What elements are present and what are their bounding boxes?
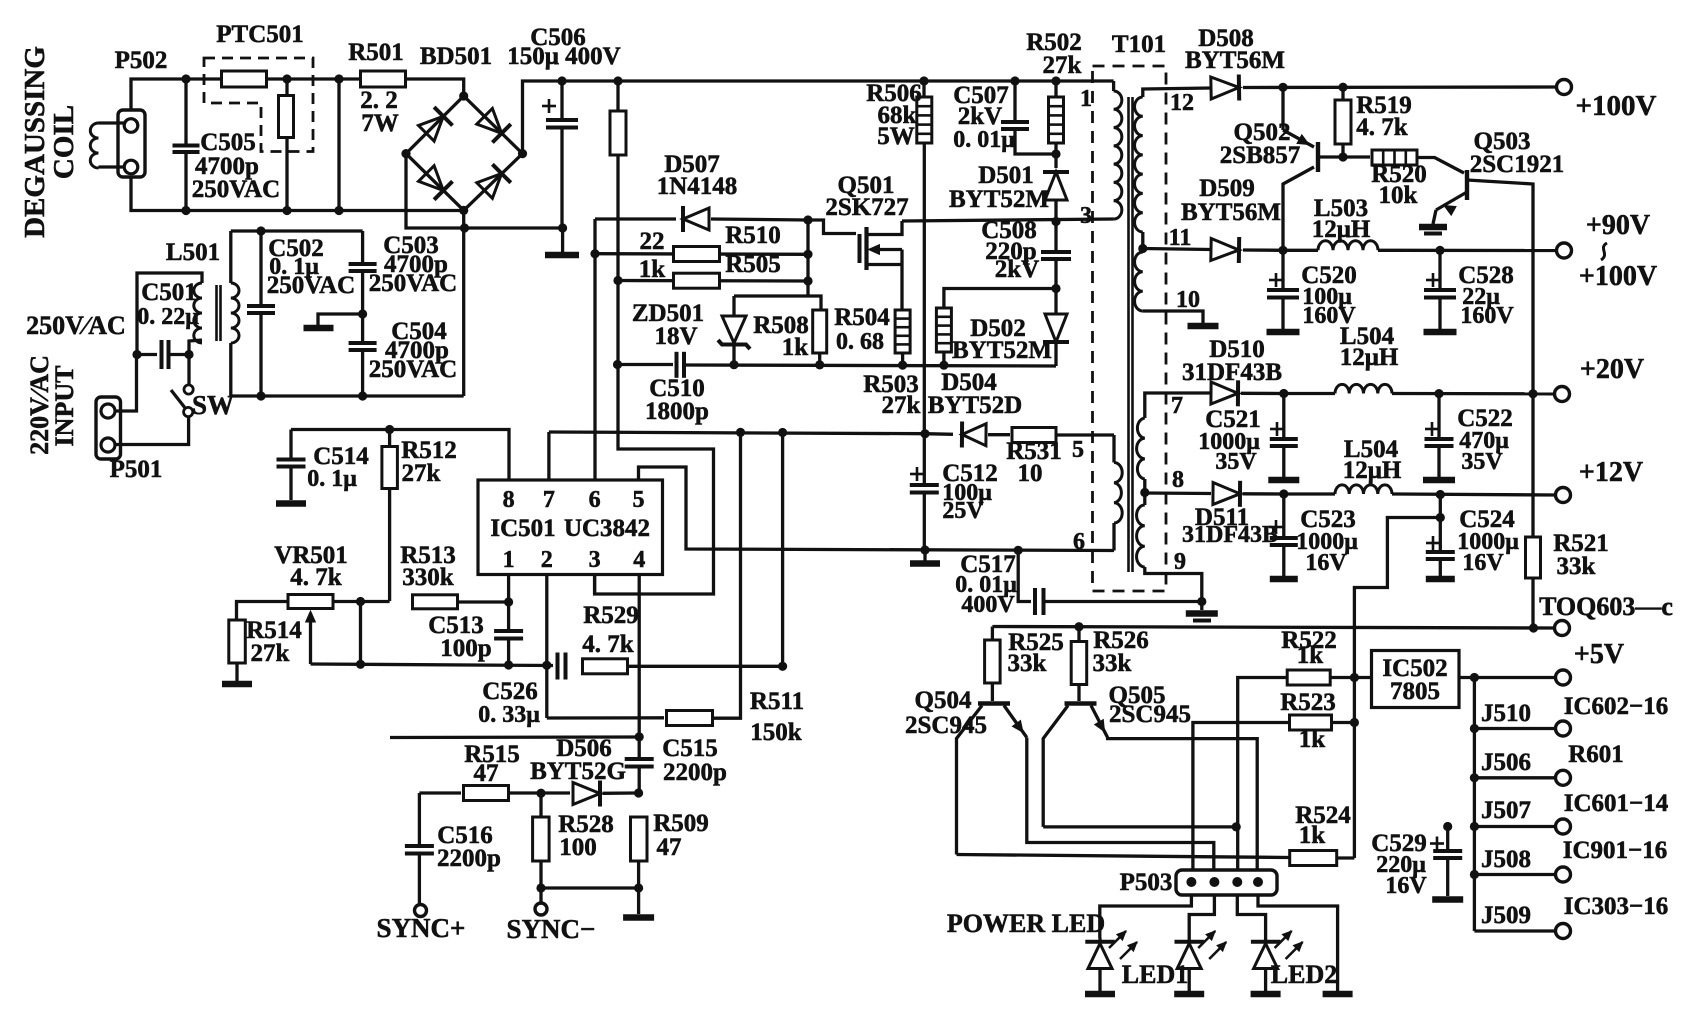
svg-text:IC602−16: IC602−16 [1564, 693, 1669, 720]
svg-text:2SK727: 2SK727 [825, 194, 908, 221]
node bus-R506 [919, 76, 928, 85]
svg-text:R511: R511 [750, 688, 804, 715]
transistor Q503 [1433, 170, 1533, 394]
label R601 [1568, 741, 1624, 768]
svg-text:1800p: 1800p [645, 398, 709, 425]
svg-text:33k: 33k [1557, 553, 1596, 580]
wire pin8 lead [1145, 491, 1211, 495]
label C523 voltage [1305, 550, 1347, 576]
label Q505 [1109, 682, 1166, 709]
svg-text:PTC501: PTC501 [216, 21, 304, 48]
node zig-R523 [1350, 718, 1359, 727]
label IC502 [1382, 655, 1447, 682]
LED power [1085, 931, 1137, 994]
label IC303-16 [1564, 893, 1669, 920]
svg-text:1k: 1k [782, 334, 809, 361]
label C503 [383, 232, 439, 259]
svg-text:IC501: IC501 [490, 515, 555, 542]
capacitor C529 [1430, 827, 1463, 900]
node R528-sync [536, 883, 545, 892]
pin 7 [543, 487, 555, 513]
label IC601-14 [1564, 790, 1669, 817]
label R512 [401, 437, 457, 464]
terminal +90V [1557, 243, 1572, 258]
label R513 [400, 542, 456, 569]
wire J507 line [1474, 825, 1556, 828]
terminal +100V [1557, 80, 1572, 95]
capacitor C515 [625, 759, 654, 793]
capacitor C522 [1423, 394, 1455, 480]
svg-text:6: 6 [1073, 529, 1085, 555]
wire vref line [291, 430, 509, 481]
label D506 type [530, 758, 626, 785]
svg-text:J510: J510 [1481, 700, 1531, 727]
svg-text:DEGAUSSING: DEGAUSSING [19, 46, 51, 238]
label R524 value [1299, 822, 1326, 849]
label 220V/AC [25, 355, 54, 455]
svg-text:7: 7 [543, 487, 555, 513]
svg-text:250VAC: 250VAC [192, 176, 280, 203]
svg-text:L501: L501 [166, 239, 220, 266]
resistor R505 [674, 273, 720, 288]
wire J508 line [1474, 873, 1556, 876]
svg-text:250VAC: 250VAC [369, 356, 457, 383]
IC U IC501 box [478, 480, 663, 575]
label D511 [1195, 504, 1249, 531]
resistor R515 [464, 786, 509, 801]
node J506 [1470, 773, 1479, 782]
label R504 [834, 304, 890, 331]
label C529 value [1376, 852, 1426, 878]
capacitor C524 [1426, 495, 1455, 580]
potentiometer VR501 [288, 595, 333, 665]
node vcc-D504 [920, 429, 929, 438]
label R520 [1371, 161, 1427, 188]
resistor R522 [1287, 670, 1330, 685]
node vref-R512 [385, 425, 394, 434]
svg-text:BYT56M: BYT56M [1185, 47, 1285, 74]
label C522 [1457, 405, 1513, 432]
wire D504 to R531 [988, 433, 1010, 436]
label L504b value [1343, 457, 1402, 484]
label 250V/AC [26, 311, 126, 340]
node startup-C510 [613, 360, 622, 369]
pin 1 [503, 547, 515, 573]
label R523 [1280, 689, 1336, 716]
label C520 value [1302, 284, 1352, 310]
wire AC top segment [231, 229, 363, 232]
label R525 [1008, 629, 1064, 656]
wire gate feed [808, 220, 856, 234]
wire +5V line [1459, 676, 1556, 679]
inductor L503 [1283, 241, 1556, 251]
label C521 [1205, 406, 1261, 433]
node comp-pin1 [504, 660, 513, 669]
svg-text:J508: J508 [1481, 846, 1531, 873]
node return-C505 [181, 206, 190, 215]
node bus-R502 [1051, 76, 1060, 85]
label C521 value [1198, 429, 1260, 455]
capacitor C517 [1018, 550, 1202, 615]
svg-text:BYT52M: BYT52M [952, 337, 1052, 364]
svg-text:T101: T101 [1112, 31, 1166, 58]
wire startup column [616, 81, 619, 112]
label R511 value [750, 719, 802, 746]
wire vcc to D504 [925, 432, 953, 436]
label L504a value [1340, 344, 1399, 371]
label +100V bottom [1579, 261, 1657, 292]
ground R514 [222, 663, 252, 684]
label J508 [1481, 846, 1531, 873]
label D507 [664, 151, 720, 178]
svg-text:TOQ603—c: TOQ603—c [1539, 592, 1673, 621]
svg-text:D509: D509 [1199, 175, 1255, 202]
label R508 [753, 312, 809, 339]
svg-text:11: 11 [1169, 225, 1192, 251]
svg-text:150μ 400V: 150μ 400V [507, 43, 620, 70]
node J507-C529 [1443, 822, 1452, 831]
node J507 [1470, 822, 1479, 831]
label R524 [1295, 802, 1351, 829]
wire SW to P501 bottom [115, 417, 189, 445]
wire P501 top [115, 355, 137, 412]
svg-text:4. 7k: 4. 7k [1356, 114, 1408, 141]
label C505 voltage [192, 176, 280, 203]
label C502 [268, 235, 324, 262]
svg-text:P501: P501 [110, 456, 163, 483]
label C513 value [440, 635, 491, 662]
svg-text:BYT52D: BYT52D [928, 392, 1022, 419]
node 5v-jbus [1470, 673, 1479, 682]
label R506 wattage [877, 123, 915, 150]
capacitor C506 [542, 76, 578, 228]
svg-text:16V: 16V [1385, 873, 1427, 899]
label R511 [750, 688, 804, 715]
ground pin10 [1188, 323, 1219, 330]
wire pin5 gnd [639, 467, 1115, 551]
label C505 [200, 129, 256, 156]
inductor L501 [194, 283, 239, 343]
node pin4-rt [635, 732, 644, 741]
node 20v-c522 [1434, 389, 1443, 398]
node C506 minus [558, 223, 567, 232]
label C515 [662, 735, 718, 762]
svg-text:5W: 5W [877, 123, 915, 150]
label R510 value [640, 228, 665, 255]
label C522 voltage [1461, 449, 1503, 475]
label C503 voltage [369, 270, 457, 297]
svg-text:1k: 1k [1297, 642, 1324, 669]
label C517 [960, 551, 1016, 578]
label IC602-16 [1564, 693, 1669, 720]
label ZD501 value [654, 323, 697, 350]
label R528 [558, 811, 614, 838]
terminal +12V [1556, 488, 1571, 503]
node 100v-q502e [1278, 83, 1287, 92]
svg-text:R529: R529 [583, 602, 639, 629]
pin 4 [633, 547, 645, 573]
wire filter box right edge [462, 210, 465, 396]
LED LED2 [1251, 931, 1303, 994]
wire pin6 column [593, 219, 596, 480]
ground C517 [1186, 602, 1218, 621]
svg-text:10k: 10k [1379, 182, 1418, 209]
wire R511 line [547, 716, 664, 720]
resistor R501 [361, 71, 406, 87]
label R502 value [1043, 52, 1082, 79]
wire P502 top to bus [131, 79, 186, 110]
node pin11 tap [1138, 244, 1147, 253]
label C522 value [1459, 428, 1509, 454]
label T101 [1112, 31, 1166, 58]
svg-text:5: 5 [1072, 437, 1084, 463]
degaussing coil inductor [90, 123, 124, 168]
label P502 [115, 47, 168, 74]
svg-text:R510: R510 [725, 222, 781, 249]
label C507 [953, 82, 1009, 109]
label D508 [1198, 25, 1254, 52]
wire VR501 left [237, 602, 289, 621]
node R502-C507 [1051, 149, 1060, 158]
svg-text:250V∕AC: 250V∕AC [26, 311, 126, 340]
pin 9 label [1174, 549, 1186, 575]
node 3 junction [1051, 217, 1060, 226]
capacitor C501 [132, 340, 193, 369]
label R523 value [1299, 726, 1326, 753]
label R501 wattage [361, 110, 399, 137]
label C510 value [645, 398, 709, 425]
wire P503 pin4 down [1258, 895, 1338, 991]
label D507 type [657, 173, 738, 200]
label C528 [1458, 262, 1514, 289]
label COIL [48, 105, 80, 179]
svg-text:16V: 16V [1305, 550, 1347, 576]
label C512 value [942, 480, 992, 506]
PTC501 dashed box [204, 58, 313, 152]
wire L501 loop top [137, 273, 202, 355]
wire bus top left [186, 79, 464, 96]
resistor R510 [674, 247, 720, 262]
svg-text:P503: P503 [1120, 869, 1173, 896]
wire R510 line [595, 252, 808, 256]
wire L501 right bottom [229, 343, 232, 396]
svg-text:IC303−16: IC303−16 [1564, 893, 1669, 920]
label R526 value [1093, 650, 1132, 677]
node minus-boxright [460, 223, 469, 232]
terminal SYNC+ [415, 905, 427, 917]
wire R513 right [458, 600, 509, 603]
winding T101 secondary 12-11-10 [1135, 88, 1211, 323]
wire pin3 column [593, 575, 596, 595]
wire R529 to vcc [781, 433, 784, 667]
label Q503 type [1470, 151, 1564, 178]
node return-x339 [334, 206, 343, 215]
pin 8 label [1172, 467, 1184, 493]
svg-text:BD501: BD501 [420, 43, 492, 70]
wire bus main [562, 79, 1114, 82]
resistor R508 [813, 310, 827, 353]
label D510 type [1182, 359, 1282, 386]
node R528 top [536, 789, 545, 798]
svg-text:1k: 1k [1299, 726, 1326, 753]
svg-text:C505: C505 [200, 129, 256, 156]
capacitor C504 [349, 314, 377, 401]
svg-text:160V: 160V [1460, 303, 1514, 329]
label R512 value [402, 460, 441, 487]
node R510 right [803, 250, 812, 259]
wire wiper drop [359, 602, 362, 665]
node toq-R526 [1074, 622, 1083, 631]
transistor Q505 [1043, 704, 1257, 883]
label D509 type [1181, 199, 1281, 226]
resistor R521 [1526, 394, 1541, 628]
svg-text:LED1: LED1 [1122, 960, 1188, 989]
node J510 [1470, 724, 1479, 733]
node C517-pin9 [1197, 597, 1206, 606]
connector P501 [96, 397, 121, 459]
svg-text:22: 22 [640, 228, 665, 255]
svg-text:LED2: LED2 [1271, 960, 1337, 989]
node pin6-R510 [590, 249, 599, 258]
wire pin2 column [545, 575, 548, 719]
label D501 type [949, 186, 1049, 213]
wire D507 to gate node [711, 219, 808, 220]
resistor R513 [413, 595, 458, 609]
label R521 [1553, 530, 1609, 557]
ground Q503 [1419, 227, 1447, 234]
wire sync- link [541, 886, 639, 889]
label Q503 [1474, 128, 1531, 155]
resistor R519 [1335, 87, 1351, 157]
svg-text:R504: R504 [834, 304, 890, 331]
label R501 value [360, 87, 398, 114]
wire R515 right [509, 791, 571, 794]
label C504 voltage [369, 356, 457, 383]
label R529 value [582, 631, 634, 658]
label C508 voltage [995, 256, 1039, 283]
pin 8 [503, 487, 515, 513]
label R506 value [878, 102, 917, 129]
label R526 [1093, 627, 1149, 654]
svg-text:8: 8 [503, 487, 515, 513]
wire +12V line a [1243, 492, 1284, 496]
node R504-ground [898, 361, 907, 370]
svg-text:0. 33μ: 0. 33μ [478, 702, 540, 728]
label J509 [1481, 902, 1531, 929]
node bus-startup [613, 76, 622, 85]
svg-text:31DF43B: 31DF43B [1182, 522, 1278, 548]
label R505 value [639, 256, 666, 283]
svg-text:3: 3 [1080, 203, 1092, 229]
label Q505 type [1109, 701, 1191, 728]
wire gate column [806, 220, 809, 296]
label R522 value [1297, 642, 1324, 669]
svg-text:SW: SW [192, 390, 234, 420]
IC U IC502 box [1372, 651, 1460, 708]
svg-text:12μH: 12μH [1340, 344, 1399, 371]
svg-text:27k: 27k [402, 460, 441, 487]
svg-text:400V: 400V [961, 592, 1015, 618]
terminal SYNC- [535, 903, 547, 915]
node 12v-c524 [1436, 490, 1445, 499]
diode D504 [962, 422, 986, 448]
label R519 [1356, 92, 1412, 119]
wire fb line [333, 600, 390, 603]
label D508 type [1185, 47, 1285, 74]
label C514 value [307, 466, 357, 492]
diode D509 [1211, 237, 1239, 263]
label R531 [1006, 438, 1062, 465]
label C516 value [437, 845, 501, 872]
label VR501 value [290, 564, 342, 591]
label Q504 type [905, 712, 987, 739]
svg-text:250VAC: 250VAC [267, 272, 355, 299]
terminal J508 [1556, 867, 1571, 882]
svg-text:J507: J507 [1481, 797, 1531, 824]
capacitor C513 [494, 631, 523, 665]
diode D511 [1213, 481, 1240, 507]
label Q501 type [825, 194, 908, 221]
svg-text:27k: 27k [882, 392, 921, 419]
resistor R512 [382, 430, 398, 602]
svg-text:16V: 16V [1462, 550, 1504, 576]
svg-text:2200p: 2200p [663, 759, 727, 786]
label VR501 [274, 542, 348, 569]
wire D506 right [603, 791, 639, 795]
label R503 [863, 371, 919, 398]
label C510 [649, 375, 705, 402]
label L501 [166, 239, 220, 266]
transformer T101 dashed box [1093, 66, 1167, 591]
svg-text:+20V: +20V [1580, 354, 1644, 385]
svg-text:2SC945: 2SC945 [905, 712, 987, 739]
wire vcc bus [547, 432, 550, 480]
label Q502 [1234, 119, 1291, 146]
connector P502 [118, 110, 145, 177]
label C524 [1459, 506, 1515, 533]
label C524 value [1457, 529, 1519, 555]
label C524 voltage [1462, 550, 1504, 576]
resistor R507 startup [610, 111, 626, 155]
node zig-c524 [1436, 513, 1445, 522]
svg-text:2SB857: 2SB857 [1220, 142, 1301, 169]
capacitor C508 [1041, 222, 1071, 289]
label R520 value [1379, 182, 1418, 209]
label Q504 [915, 687, 972, 714]
wire Q505 collector line [1043, 825, 1236, 828]
svg-text:0. 1μ: 0. 1μ [307, 466, 357, 492]
label R514 value [251, 640, 290, 667]
capacitor C520 [1267, 250, 1300, 332]
resistor R509 [631, 817, 648, 861]
label C501 value [137, 304, 199, 330]
pin 11 label [1169, 225, 1192, 251]
wire loop vertical [337, 79, 340, 211]
label C506 value [507, 43, 620, 70]
svg-text:2SC945: 2SC945 [1109, 701, 1191, 728]
capacitor C514 [277, 430, 306, 501]
wire P503 pin2 down [1189, 895, 1214, 938]
label D510 [1209, 336, 1265, 363]
wire R522 left [1238, 678, 1288, 883]
label C502 value [269, 254, 319, 280]
label +5V [1574, 639, 1624, 670]
wire snubber link [944, 289, 1056, 309]
resistor R531 [1012, 428, 1056, 443]
node comp-pin2 [542, 661, 551, 670]
label R509 [653, 810, 709, 837]
resistor R523 [1290, 715, 1332, 730]
